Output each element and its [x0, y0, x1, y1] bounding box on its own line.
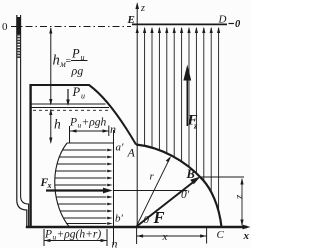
svg-text:x: x	[47, 181, 52, 190]
svg-text:P: P	[44, 229, 52, 241]
svg-text:F: F	[153, 208, 165, 227]
svg-text:0′: 0′	[181, 189, 190, 201]
svg-text:D: D	[218, 14, 227, 26]
svg-text:и: и	[81, 92, 85, 101]
tick for dimension (left)	[69, 126, 71, 143]
pressure diagram top edge	[67, 142, 114, 144]
svg-text:z: z	[234, 194, 245, 199]
pressure hatch arrows on n-n	[55, 150, 107, 224]
curved surface arc A-B-C	[136, 145, 222, 228]
svg-text:0: 0	[144, 214, 150, 226]
projection plane n-n vertical line	[113, 130, 115, 245]
tank top edge	[30, 84, 90, 86]
svg-text:x: x	[243, 230, 250, 242]
dimension z at right	[241, 179, 243, 225]
svg-text:z: z	[140, 3, 145, 14]
force F_z arrow	[186, 78, 188, 126]
tick right	[106, 229, 108, 246]
svg-text:E: E	[127, 14, 135, 26]
horizontal line through B	[200, 176, 244, 178]
svg-text:+ρg(h+r): +ρg(h+r)	[57, 229, 102, 241]
piezometer tube inner wall	[21, 15, 29, 226]
label P_u	[72, 85, 86, 101]
gas pressure P_u arrow	[67, 89, 69, 104]
tick for dimension (right)	[108, 126, 110, 137]
F_z pressure volume hatch lines	[145, 28, 219, 212]
label P_u + rho g (h+r)	[44, 229, 101, 242]
radius r line with arrow	[137, 158, 170, 226]
svg-text:P: P	[69, 117, 77, 129]
liquid surface line upper	[31, 103, 106, 105]
svg-text:A: A	[127, 146, 136, 160]
svg-text:P: P	[72, 85, 81, 99]
svg-text:h: h	[53, 53, 60, 69]
svg-text:b′: b′	[115, 213, 124, 225]
svg-text:a′: a′	[116, 142, 125, 154]
tank slanted upper-right wall	[89, 85, 136, 145]
svg-text:P: P	[71, 47, 80, 61]
wire 0-0 piezometric dash-dot line	[11, 26, 131, 28]
liquid surface line lower	[31, 107, 109, 109]
svg-text:z: z	[193, 121, 198, 131]
label h_m = P_u / rho g	[53, 47, 88, 78]
svg-text:0: 0	[235, 19, 241, 30]
label P_u + rho g h	[69, 117, 107, 130]
dimension line for P_u+rho g h	[70, 130, 109, 132]
svg-text:r: r	[150, 171, 155, 183]
liquid surface hatching	[33, 109, 110, 111]
force F_x arrow	[46, 189, 104, 191]
tank bottom and x axis baseline	[26, 226, 247, 228]
svg-text:x: x	[162, 231, 168, 243]
dimension h_m vertical line	[50, 28, 52, 104]
tick left	[43, 229, 45, 246]
svg-text:h: h	[54, 117, 61, 132]
plane E-D solid line	[132, 23, 227, 25]
svg-text:n: n	[112, 237, 118, 248]
pressure diagram curved left boundary	[55, 143, 69, 227]
piezometer liquid meniscus at 0-0 level	[17, 17, 21, 34]
x axis arrowhead	[243, 225, 251, 230]
dimension x below baseline	[136, 228, 138, 244]
F_x line of action to O'	[114, 190, 188, 192]
svg-text:C: C	[217, 229, 225, 241]
dimension line for P_u+rho g(h+r)	[44, 240, 107, 242]
resultant force F arrow	[137, 182, 195, 227]
wire dash after D	[229, 23, 235, 25]
piezometer tube outer wall	[17, 15, 27, 226]
label F_z	[187, 113, 199, 131]
dimension h vertical line	[50, 110, 52, 143]
z axis	[136, 4, 138, 227]
svg-text:0: 0	[2, 21, 8, 33]
label F_x	[40, 177, 52, 190]
svg-text:ρg: ρg	[71, 64, 84, 78]
tank left wall	[29, 84, 31, 227]
svg-text:+ρgh: +ρgh	[82, 117, 107, 129]
piezometer liquid column shading	[17, 34, 20, 58]
